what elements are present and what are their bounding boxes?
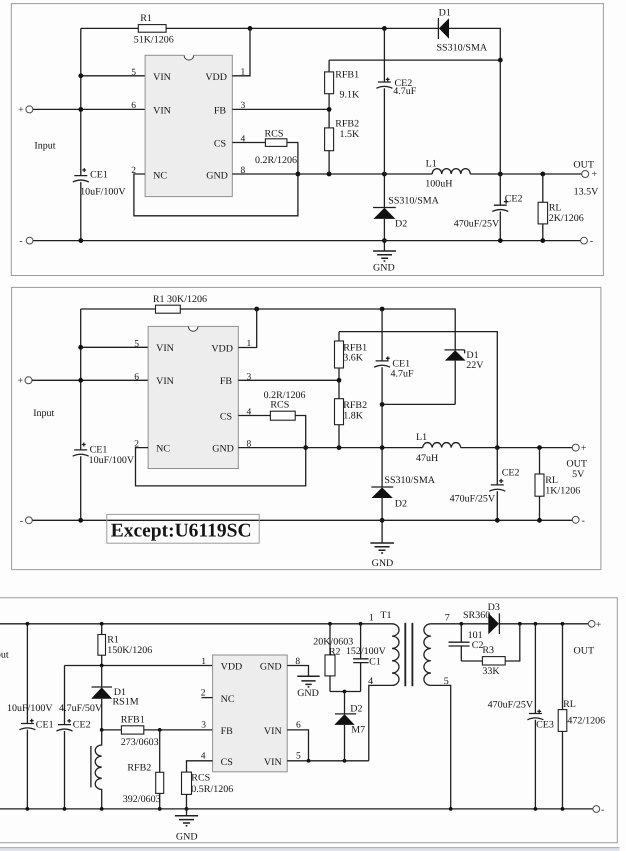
svg-text:472/1206: 472/1206 (567, 715, 605, 726)
svg-text:CE1: CE1 (392, 358, 410, 369)
wire T1 pin4 lead (369, 685, 392, 760)
panel 1 frame (11, 4, 603, 276)
svg-text:GND: GND (212, 443, 234, 454)
wire top rail right segment to corner (449, 28, 500, 60)
svg-text:SS310/SMA: SS310/SMA (437, 42, 488, 53)
node RFB2 bottom (327, 172, 332, 177)
svg-text:13.5V: 13.5V (574, 187, 600, 198)
svg-text:FB: FB (214, 105, 227, 116)
resistor RFB2 1.5K (325, 128, 334, 151)
next panel top edge (0, 847, 620, 849)
svg-text:VIN: VIN (153, 105, 171, 116)
wire T1 pin5 lead (431, 685, 451, 809)
inductor L1 100uH (432, 169, 470, 174)
terminal input plus (25, 377, 32, 384)
svg-text:R2: R2 (329, 647, 341, 658)
svg-text:Input: Input (33, 408, 54, 419)
svg-text:D1: D1 (439, 8, 451, 19)
resistor R1 30K (156, 305, 181, 313)
svg-text:RCS: RCS (270, 399, 289, 410)
svg-text:470uF/25V: 470uF/25V (450, 494, 496, 505)
node pin5 junction (78, 73, 83, 78)
svg-text:RFB2: RFB2 (335, 118, 359, 129)
svg-text:-: - (590, 236, 593, 247)
svg-text:SS310/SMA: SS310/SMA (388, 196, 439, 207)
capacitor CE1 10uF/100V (73, 450, 89, 456)
diode D2 SS310/SMA freewheel (381, 448, 383, 487)
terminal OUT minus (572, 516, 579, 523)
diode D2 M7 (344, 692, 346, 714)
terminal input minus (26, 237, 33, 244)
ground symbol panel1 (373, 251, 396, 261)
capacitor CE2 4.7uF/50V (64, 666, 66, 809)
svg-text:5: 5 (296, 752, 301, 762)
svg-text:Except:U6119SC: Except:U6119SC (111, 521, 252, 542)
node CE2 top (382, 26, 387, 31)
node NC loop / RCS junction (296, 172, 301, 177)
svg-text:GND: GND (372, 558, 394, 569)
svg-text:-: - (20, 516, 23, 527)
svg-text:CS: CS (221, 757, 233, 768)
svg-text:D2: D2 (350, 704, 362, 715)
node T1 pin5 bottom (449, 807, 453, 811)
resistor R3 33K (482, 657, 505, 665)
svg-text:GND: GND (297, 688, 319, 699)
wire FB pin3 (232, 108, 329, 110)
op IC U3 body (213, 655, 288, 772)
wire FB row (102, 729, 213, 731)
svg-text:4.7uF/50V: 4.7uF/50V (59, 703, 103, 714)
transformer T1 primary winding (392, 624, 399, 686)
node D2 top (382, 172, 387, 177)
svg-text:C1: C1 (369, 657, 381, 668)
svg-text:47uH: 47uH (416, 453, 438, 464)
next panel tint strip (0, 848, 620, 851)
node RFB1 right / RFB2 top (158, 728, 162, 732)
wire VDD pin1 riser (232, 28, 250, 75)
panel 3 frame (left edge off-canvas) (0, 598, 617, 843)
wire CS pin4 (238, 415, 270, 417)
terminal OUT minus (593, 806, 600, 813)
ground symbol panel2 (370, 543, 394, 553)
transformer T1 core (405, 623, 412, 686)
svg-text:1: 1 (369, 613, 374, 624)
node CE2 bottom (63, 807, 67, 811)
wire GND pin8 switch row (238, 447, 572, 449)
node left vertical bottom (78, 238, 83, 243)
capacitor C1 152/100V (360, 624, 362, 692)
node NC loop / RCS junction (303, 445, 308, 450)
svg-text:RL: RL (563, 699, 576, 710)
svg-text:CE1: CE1 (90, 169, 108, 180)
wire pin6 VIN from + terminal (32, 379, 148, 381)
svg-text:CE3: CE3 (536, 719, 554, 730)
svg-text:2K/1206: 2K/1206 (549, 213, 584, 224)
node RFB2 bottom (158, 807, 162, 811)
transformer T1 secondary winding (424, 624, 431, 686)
svg-text:VDD: VDD (211, 343, 233, 354)
node zener bottom / CE1 bottom (380, 402, 385, 407)
svg-text:VDD: VDD (221, 662, 243, 673)
wire RFB1 top to D1 cathode vertical (329, 59, 500, 61)
svg-text:SS310/SMA: SS310/SMA (384, 475, 435, 486)
wire RFB1 chain (328, 60, 330, 174)
svg-text:1: 1 (201, 657, 206, 667)
node D1 bottom / FB row (100, 728, 104, 732)
diode D2 SS310/SMA freewheel (383, 174, 385, 207)
op IC U1 body (145, 55, 232, 196)
zener diode D1 22V (445, 350, 465, 354)
svg-text:OUT: OUT (573, 159, 594, 170)
node R1 bottom / D1 anode (100, 664, 104, 668)
svg-text:RFB2: RFB2 (343, 400, 367, 411)
capacitor CE2 470uF/25V (496, 448, 498, 521)
panel 2 frame (12, 287, 601, 569)
svg-text:Input: Input (34, 140, 55, 151)
node CE2 470uF top (498, 172, 503, 177)
svg-text:4.7uF: 4.7uF (393, 86, 417, 97)
node R2 top (328, 622, 332, 626)
svg-text:RCS: RCS (265, 128, 284, 139)
svg-text:CE1: CE1 (36, 720, 54, 731)
node D2 bottom rail (380, 518, 385, 523)
svg-text:470uF/25V: 470uF/25V (488, 700, 534, 711)
node D2 top (380, 445, 385, 450)
svg-text:VDD: VDD (205, 72, 227, 83)
node RL bottom (561, 807, 565, 811)
wire VIN pin5 row (287, 760, 369, 762)
svg-text:RFB1: RFB1 (335, 70, 359, 81)
capacitor CE1 4.7uF (381, 309, 383, 448)
svg-text:CE2: CE2 (502, 468, 520, 479)
svg-text:22V: 22V (466, 360, 484, 371)
svg-text:150K/1206: 150K/1206 (107, 645, 152, 656)
wire CS to RCS (187, 761, 213, 809)
capacitor C2 101 snubber (461, 624, 482, 661)
svg-text:6: 6 (131, 101, 136, 111)
svg-text:6: 6 (296, 721, 301, 731)
terminal input minus (26, 517, 33, 524)
wire bottom negative rail (33, 240, 581, 242)
wire pin6 VIN from + terminal (33, 108, 145, 110)
capacitor CE2 4.7uF bootstrap (383, 28, 385, 174)
note box Except U6119SC (107, 514, 259, 543)
wire top rail left segment (81, 308, 156, 310)
resistor RCS 0.2R (265, 139, 287, 147)
wire snubber bottom (330, 691, 361, 693)
node VDD riser top (254, 307, 259, 312)
svg-text:D2: D2 (395, 498, 407, 509)
svg-text:3: 3 (201, 721, 206, 731)
svg-text:CS: CS (220, 411, 232, 422)
diode D1 SS310/SMA (439, 18, 449, 39)
wire GND pin8 switch row (232, 173, 582, 175)
wire RCS right to GND row (287, 143, 298, 175)
IC U2 notch (188, 326, 198, 331)
svg-text:D3: D3 (488, 602, 500, 613)
wire FB pin3 (238, 379, 339, 381)
node RFB divider / FB (337, 378, 342, 383)
svg-text:VIN: VIN (156, 376, 174, 387)
node pin6 join (307, 759, 311, 763)
svg-text:1K/1206: 1K/1206 (545, 486, 580, 497)
diode D1 RS1M (101, 666, 103, 687)
ground symbol pin8 (297, 676, 319, 687)
svg-text:4: 4 (201, 752, 206, 762)
node CE2 470 bottom (498, 238, 503, 243)
svg-text:0.5R/1206: 0.5R/1206 (191, 784, 233, 795)
svg-text:Input: Input (0, 650, 9, 661)
svg-text:+: + (596, 619, 602, 630)
wire output top rail (499, 623, 588, 625)
svg-text:7: 7 (445, 613, 450, 624)
svg-text:RCS: RCS (191, 773, 210, 784)
svg-text:VIN: VIN (264, 757, 282, 768)
wire RFB1 top to output (339, 332, 497, 448)
resistor R2 20K snubber (329, 624, 331, 692)
wire VIN pin6 riser (287, 730, 308, 761)
node pin5 junction (78, 345, 83, 350)
node RL top (537, 445, 542, 450)
svg-text:470uF/25V: 470uF/25V (454, 219, 500, 230)
node CE3 bottom (534, 807, 538, 811)
ground symbol under RCS (186, 809, 188, 816)
svg-text:FB: FB (220, 376, 233, 387)
node wire60 right (498, 58, 503, 63)
svg-text:+: + (18, 105, 24, 116)
svg-text:OUT: OUT (574, 646, 595, 657)
svg-text:NC: NC (153, 171, 167, 182)
svg-text:CE2: CE2 (505, 193, 523, 204)
terminal OUT minus (581, 237, 588, 244)
node RL top (540, 172, 545, 177)
svg-text:VIN: VIN (264, 726, 282, 737)
wire NC pin2 loop (134, 174, 298, 216)
svg-text:L1: L1 (416, 432, 427, 443)
svg-text:1.5K: 1.5K (340, 129, 361, 140)
svg-text:OUT: OUT (566, 459, 587, 470)
svg-text:5: 5 (134, 339, 139, 349)
svg-text:L1: L1 (426, 158, 437, 169)
wire bottom negative rail (32, 519, 572, 521)
svg-text:SR360: SR360 (463, 610, 490, 621)
svg-text:-: - (19, 236, 22, 247)
svg-text:RFB1: RFB1 (121, 715, 145, 726)
resistor RL 1K (539, 448, 541, 521)
node pin6 junction (78, 107, 83, 112)
wire RFB1 chain (338, 332, 340, 448)
svg-text:R3: R3 (482, 645, 494, 656)
node RL bottom (537, 518, 542, 523)
svg-text:T1: T1 (380, 610, 391, 621)
svg-text:R1 30K/1206: R1 30K/1206 (153, 294, 207, 305)
capacitor CE1 10uF/100V (26, 624, 28, 809)
svg-text:-: - (601, 804, 604, 815)
resistor RFB2 1.8K (335, 399, 344, 425)
node left vertical bottom (78, 518, 83, 523)
wire left input vertical (80, 309, 82, 520)
svg-text:R1: R1 (140, 13, 152, 24)
resistor RFB1 3.6K (335, 341, 344, 368)
inductor aux winding (95, 730, 101, 809)
svg-text:273/0603: 273/0603 (121, 737, 159, 748)
wire top rail mid segment (166, 27, 438, 29)
node C1 top / T1 pin1 (359, 622, 363, 626)
capacitor CE2 470uF/25V (499, 174, 501, 241)
wire VDD pin1 riser (238, 309, 256, 348)
svg-text:0.2R/1206: 0.2R/1206 (255, 155, 297, 166)
node R1 top (100, 622, 104, 626)
node snubber / D2 (343, 690, 347, 694)
terminal OUT plus (582, 171, 589, 178)
svg-text:10uF/100V: 10uF/100V (80, 187, 126, 198)
resistor RCS 0.5R (182, 772, 192, 794)
svg-text:CS: CS (214, 139, 226, 150)
capacitor CE1 10uF/100V (73, 176, 89, 182)
inductor L1 47uH (423, 443, 461, 448)
node pin6 junction (78, 378, 83, 383)
resistor RFB1 9.1K (325, 72, 334, 94)
resistor RL 2K (542, 174, 544, 241)
svg-text:RFB2: RFB2 (127, 763, 151, 774)
wire pin5 VIN (81, 75, 145, 77)
node RFB divider / FB (327, 107, 332, 112)
wire pin5 VIN (81, 346, 148, 348)
op IC U2 body (148, 326, 238, 468)
svg-text:+: + (18, 376, 24, 387)
wire left input vertical (80, 28, 82, 240)
svg-text:5V: 5V (572, 469, 585, 480)
node D2 bottom rail (382, 238, 387, 243)
wire T1 pin7 lead (431, 623, 488, 625)
node RCS bottom / gnd (185, 807, 189, 811)
resistor R1 (138, 25, 166, 33)
svg-text:GND: GND (373, 262, 395, 273)
wire bottom rail (0, 808, 593, 810)
svg-text:152/100V: 152/100V (346, 646, 387, 657)
svg-text:NC: NC (156, 443, 170, 454)
svg-text:GND: GND (176, 832, 198, 843)
svg-text:RFB1: RFB1 (343, 342, 367, 353)
wire NC stub (202, 697, 213, 699)
node CE1 bottom (26, 807, 30, 811)
wire RCS right to GND row (295, 416, 306, 448)
svg-text:10uF/100V: 10uF/100V (89, 455, 135, 466)
node CE2 470 bottom (495, 518, 500, 523)
node pin7 / C2 top (459, 622, 463, 626)
svg-text:GND: GND (206, 171, 228, 182)
svg-text:R1: R1 (107, 635, 119, 646)
wire top rail left segment (81, 27, 139, 29)
node CE3 top (534, 622, 538, 626)
node CE2 470uF top (495, 445, 500, 450)
wire GND pin8 (287, 666, 308, 677)
node RFB2 bottom (337, 445, 342, 450)
svg-text:RL: RL (545, 475, 558, 486)
capacitor CE3 470uF/25V (534, 624, 536, 809)
wire CS pin4 (232, 142, 265, 144)
wire top rail right segment with corner to zener (180, 309, 455, 350)
svg-text:M7: M7 (351, 725, 365, 736)
node RL top (561, 622, 565, 626)
svg-text:3.6K: 3.6K (343, 353, 364, 364)
svg-text:CE2: CE2 (73, 720, 91, 731)
svg-text:NC: NC (221, 694, 235, 705)
svg-text:+: + (581, 443, 587, 454)
resistor RFB1 273 (121, 726, 143, 734)
svg-text:CE1: CE1 (90, 445, 108, 456)
svg-text:33K: 33K (482, 666, 500, 677)
wire R3 right riser (505, 624, 520, 661)
svg-text:4.7uF: 4.7uF (391, 369, 415, 380)
IC U1 notch (184, 55, 194, 57)
svg-text:-: - (582, 515, 585, 526)
node RL bottom (540, 238, 545, 243)
svg-text:RL: RL (549, 203, 562, 214)
diode D3 SR360 (488, 613, 499, 634)
svg-text:RS1M: RS1M (113, 696, 139, 707)
node aux coil bottom (100, 807, 104, 811)
wire top input rail (0, 623, 392, 625)
svg-text:6: 6 (134, 372, 139, 382)
terminal OUT plus (588, 621, 595, 628)
svg-text:5: 5 (131, 68, 136, 78)
node D2 bottom (343, 759, 347, 763)
svg-text:100uH: 100uH (425, 178, 452, 189)
svg-text:51K/1206: 51K/1206 (134, 35, 174, 46)
wire NC pin2 loop (136, 448, 306, 486)
resistor RCS 0.2R (270, 411, 295, 420)
svg-text:FB: FB (221, 726, 234, 737)
wire VDD row (65, 665, 213, 667)
wire D1 cathode vertical (499, 60, 501, 174)
node VDD riser top (248, 26, 253, 31)
svg-text:9.1K: 9.1K (340, 90, 361, 101)
svg-text:392/0603: 392/0603 (123, 794, 161, 805)
node R3 riser top (518, 622, 522, 626)
terminal OUT plus (572, 444, 579, 451)
resistor RFB2 392 (159, 730, 161, 809)
node CE1 top (26, 622, 30, 626)
svg-text:D2: D2 (395, 218, 407, 229)
svg-text:GND: GND (260, 662, 282, 673)
resistor RL 472 (562, 624, 564, 809)
node CE1 top (380, 307, 385, 312)
svg-text:VIN: VIN (156, 343, 174, 354)
svg-text:+: + (592, 169, 598, 180)
svg-text:1.8K: 1.8K (343, 410, 364, 421)
svg-text:VIN: VIN (153, 72, 171, 83)
terminal input plus (26, 106, 33, 113)
inductor core bar (90, 746, 92, 787)
svg-text:10uF/100V: 10uF/100V (7, 703, 53, 714)
resistor R1 150K (101, 624, 103, 666)
